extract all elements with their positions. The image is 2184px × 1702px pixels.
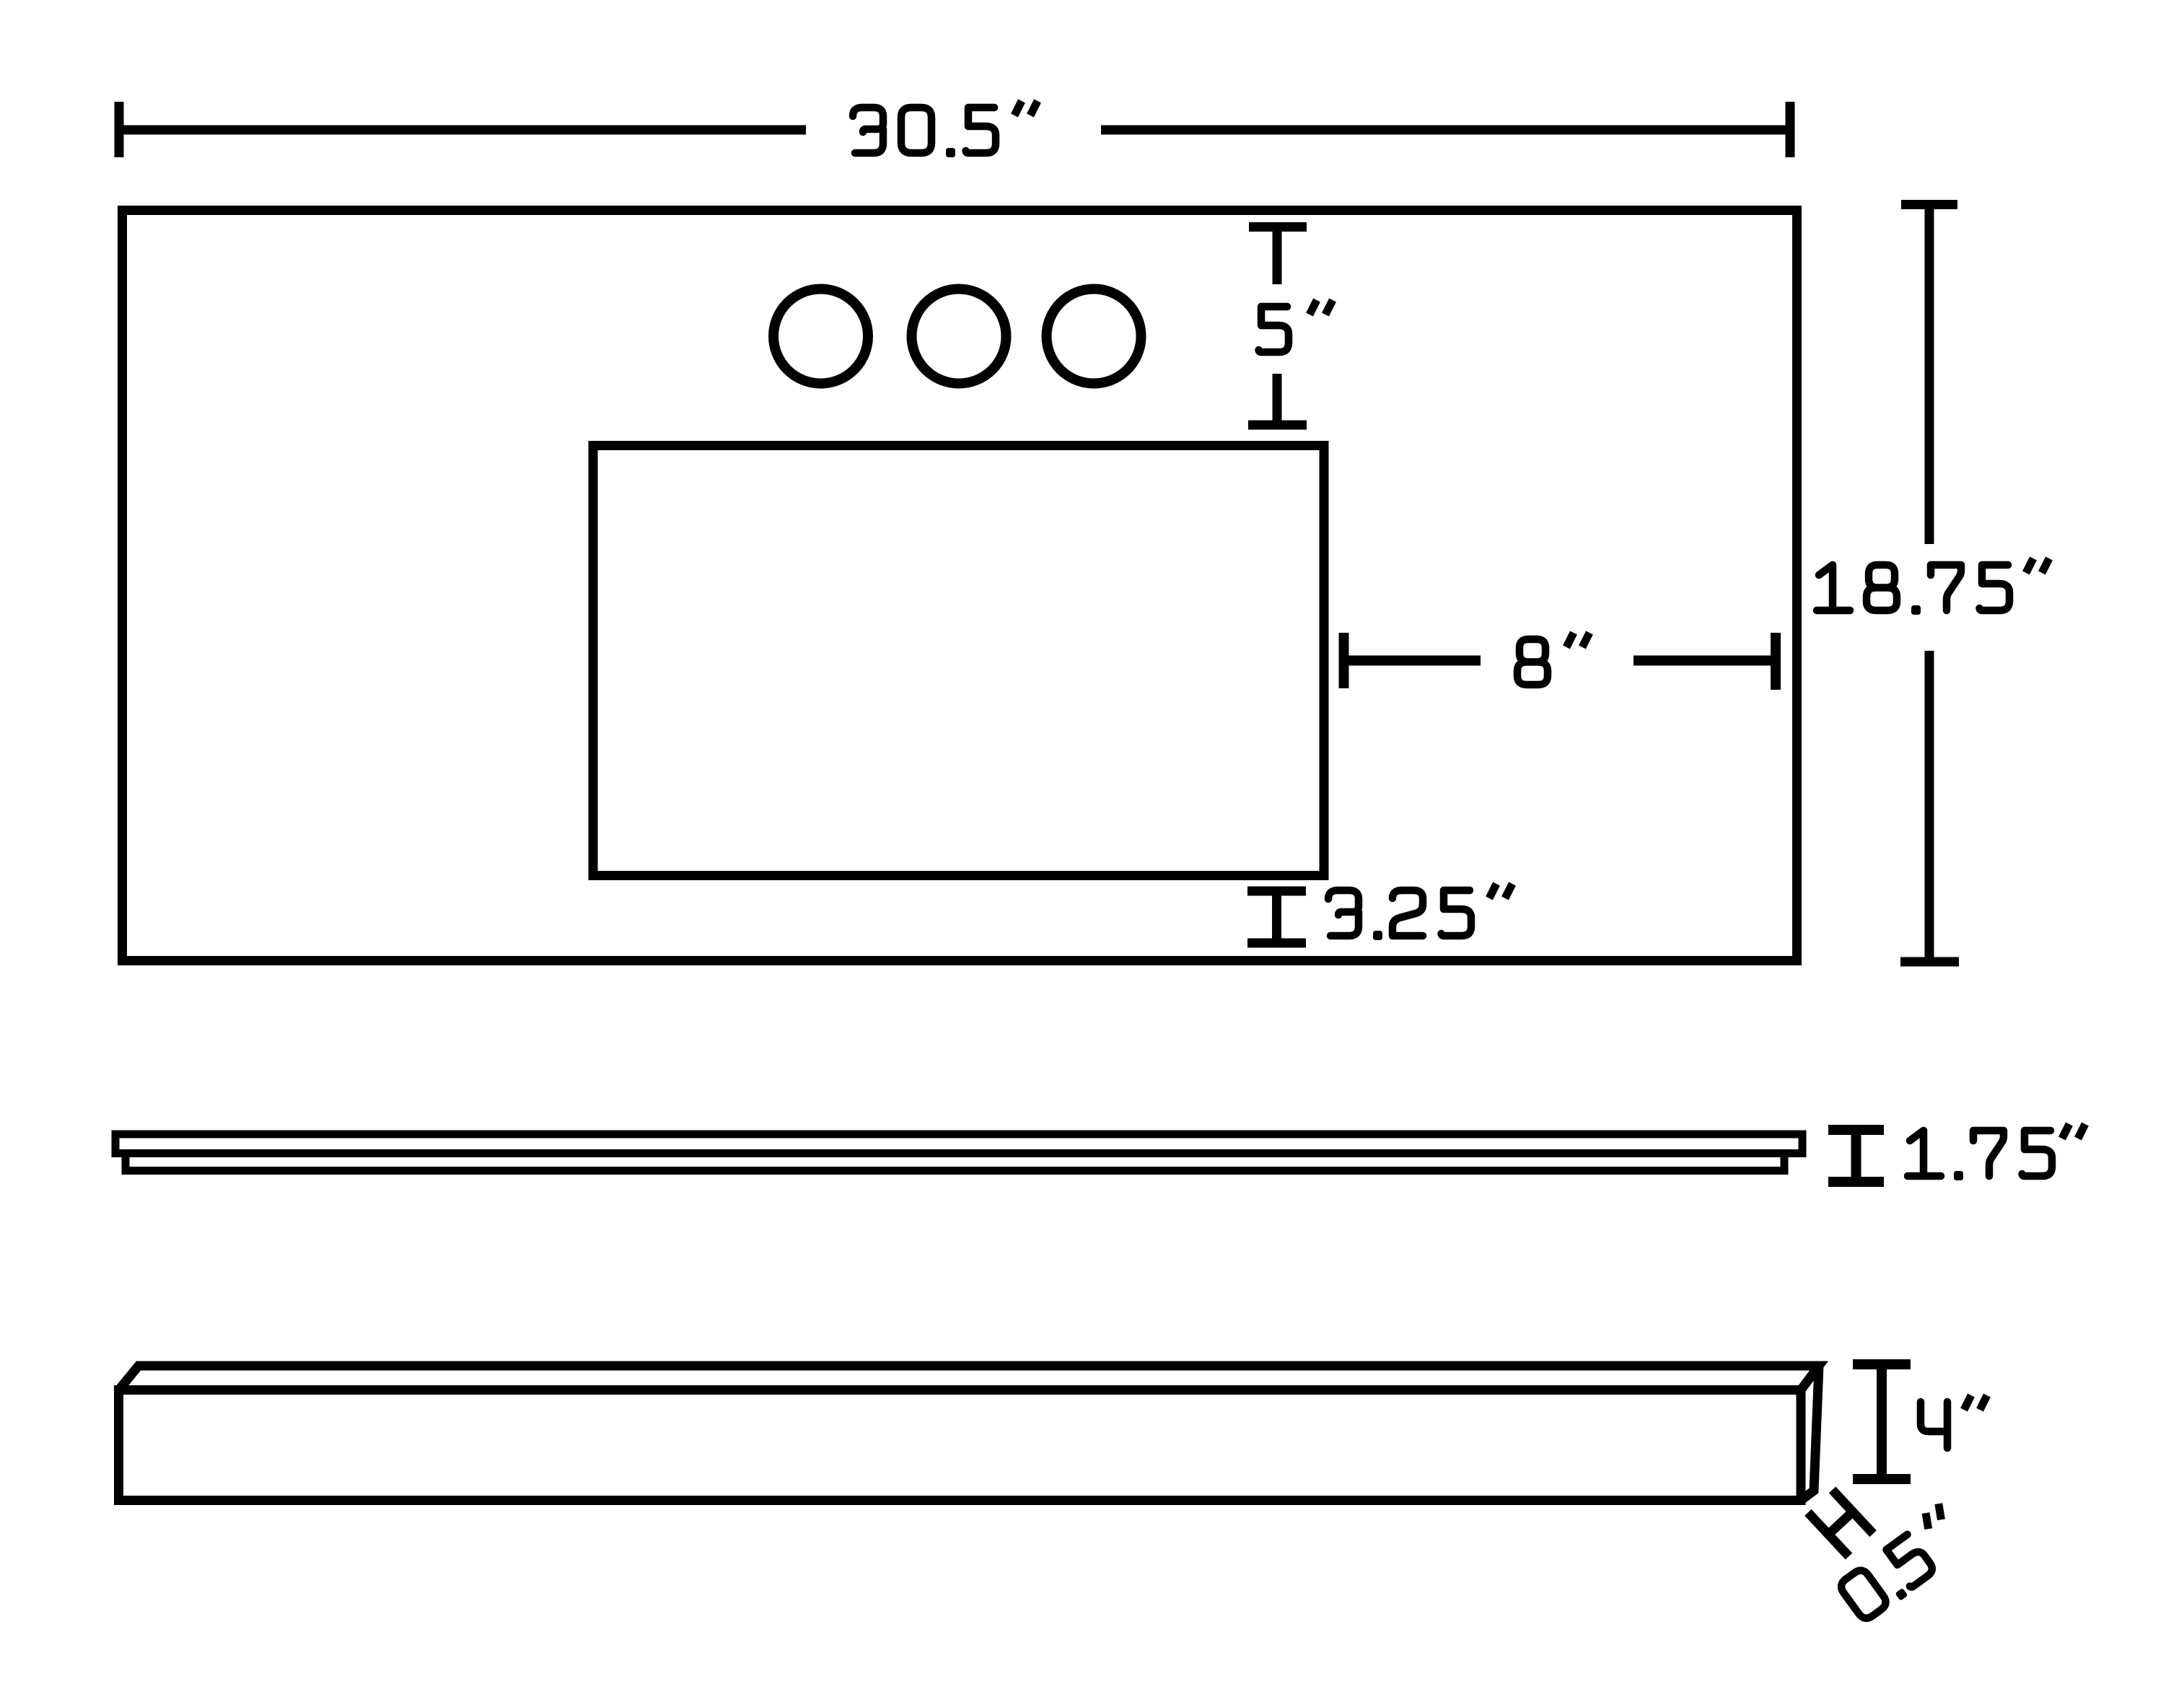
dimension 3.25in label (1328, 884, 1512, 940)
dimension 1.75in: I-beam marker (1828, 1130, 1884, 1182)
dimension 4in: I-beam marker (1853, 1364, 1911, 1479)
sink cutout rectangle (593, 446, 1324, 876)
countertop edge profile lower band (126, 1154, 1784, 1171)
backsplash front face (119, 1390, 1802, 1501)
dimension 18.75in label (1817, 558, 2049, 615)
backsplash right end face (1801, 1366, 1819, 1501)
dimension 3.25in: I-beam marker (1247, 891, 1306, 943)
dimension 30.5in: line and end ticks (119, 102, 1790, 157)
backsplash top face (119, 1366, 1820, 1390)
dimension 1.75in label (1908, 1124, 2085, 1180)
countertop edge profile upper band (115, 1134, 1802, 1154)
dimension 18.75in: vertical line and end ticks (1900, 205, 1959, 962)
faucet hole left (773, 289, 868, 384)
faucet hole right (1047, 289, 1141, 384)
dimension 0.5in label (rotated) (1834, 1504, 1972, 1625)
dimension 5in label (1259, 300, 1333, 352)
countertop top-view outline (123, 211, 1797, 961)
faucet hole center (912, 289, 1007, 384)
dimension 8in label (1517, 633, 1589, 685)
dimension 8in: line and end ticks (1344, 633, 1776, 690)
dimension 0.5in: rotated I-beam marker (1808, 1490, 1873, 1556)
dimension 5in: ticks and stems (1248, 227, 1307, 426)
dimension 30.5in label (853, 101, 1038, 157)
dimension 4in label (1921, 1395, 1987, 1448)
